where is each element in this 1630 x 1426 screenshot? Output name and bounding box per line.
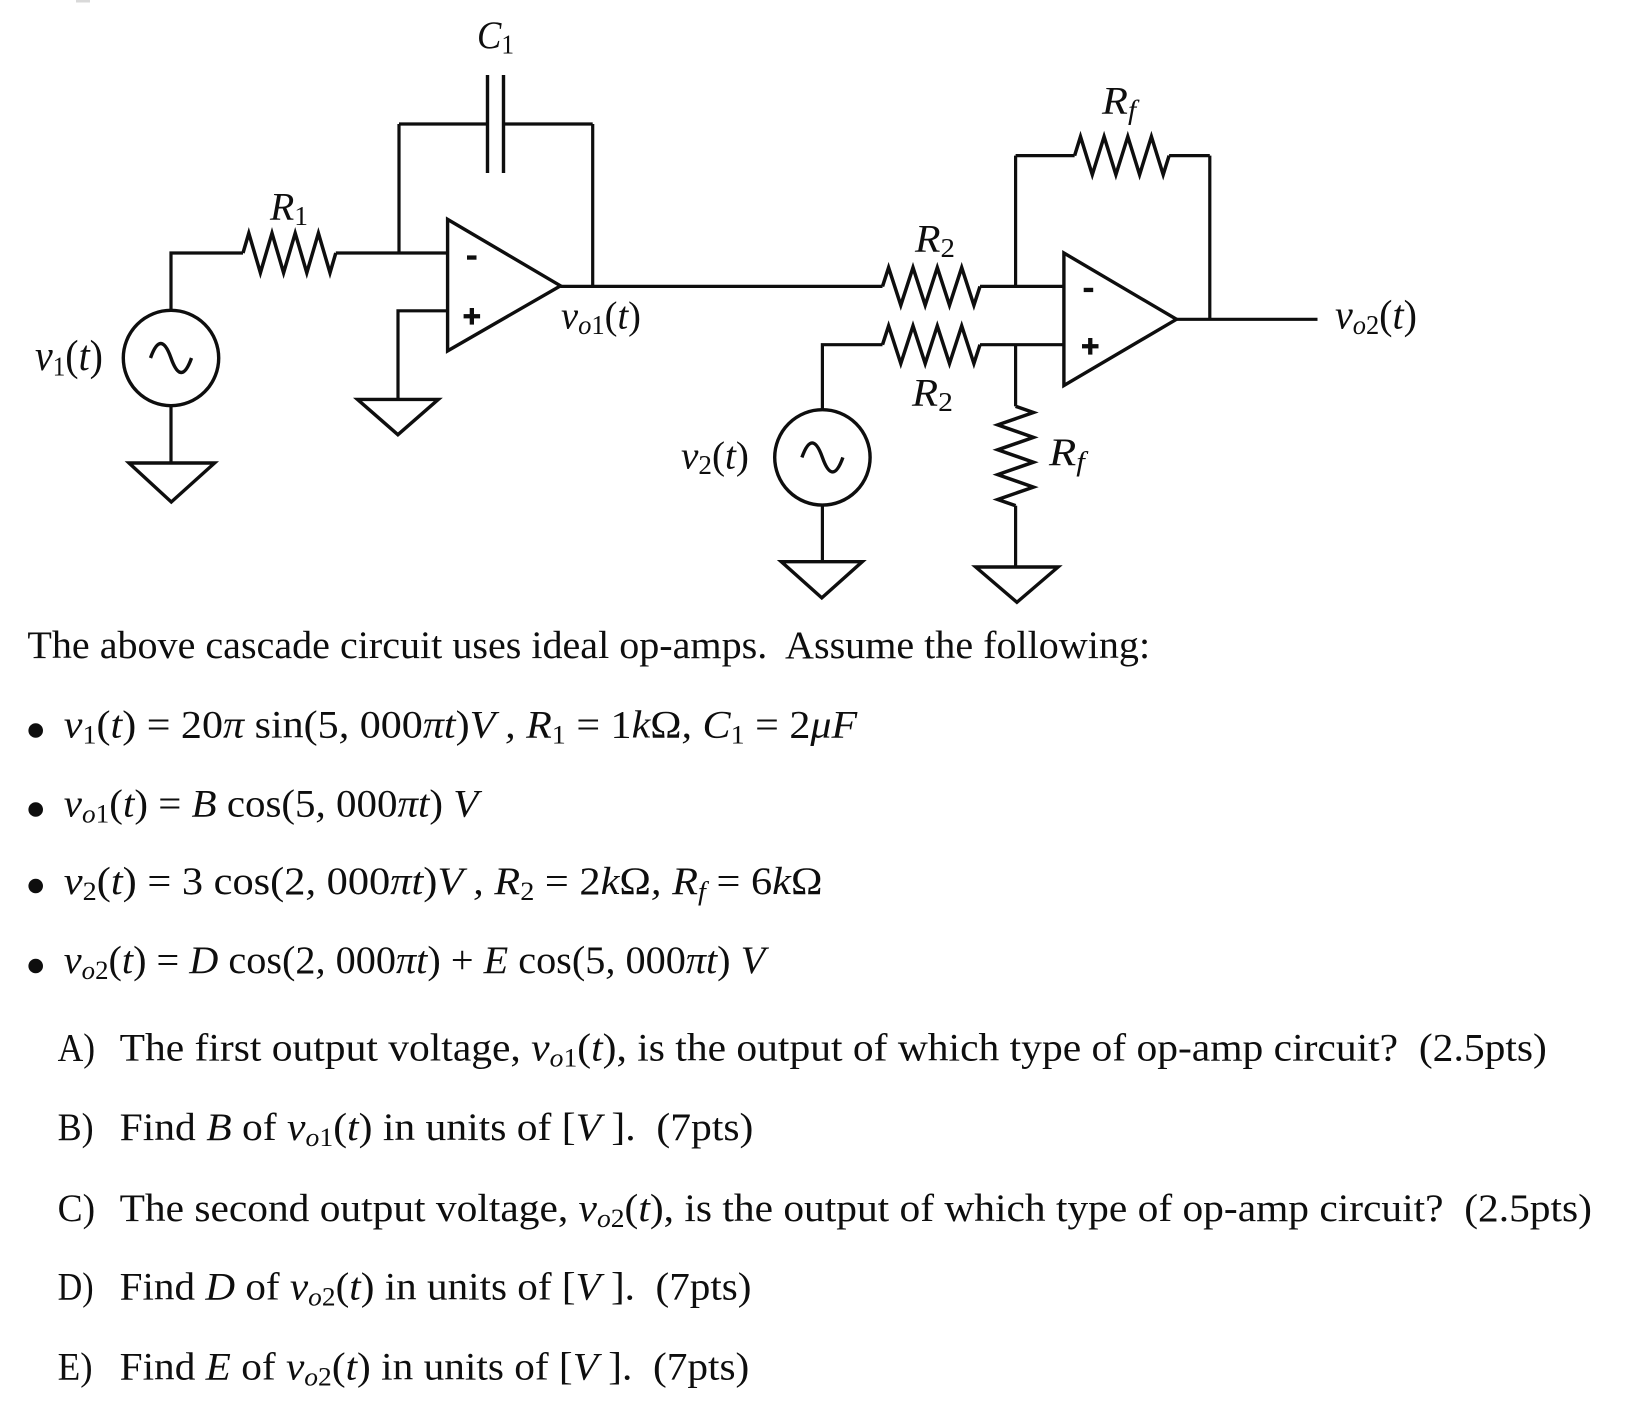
wire: Rf to ground	[1014, 506, 1017, 567]
resistor Rf (to ground)	[998, 406, 1034, 505]
wire: U1 non-inverting input	[398, 311, 448, 400]
svg-text:vo2(t): vo2(t)	[1335, 292, 1417, 340]
wire: R1 to U1 inverting input	[336, 251, 448, 254]
U1 minus pin mark	[467, 255, 477, 259]
wire: R2 bottom to U2 + input	[980, 343, 1064, 346]
svg-text:v2(t) = 3 cos(2, 000πt)V , R2: v2(t) = 3 cos(2, 000πt)V , R2 = 2kΩ, Rf …	[64, 860, 823, 906]
wire: V1 top to R1	[171, 253, 243, 310]
source V2	[775, 410, 870, 505]
wire: + node down to Rf	[1014, 345, 1017, 407]
svg-text:Find E of vo2(t) in units of [: Find E of vo2(t) in units of [V ]. (7pts…	[120, 1344, 750, 1391]
wire: U2 output	[1177, 318, 1318, 321]
wire: R2 bottom left to V2	[822, 345, 882, 410]
resistor R2 (top)	[883, 268, 981, 306]
svg-text:v1(t) = 20π sin(5, 000πt)V , R: v1(t) = 20π sin(5, 000πt)V , R1 = 1kΩ, C…	[64, 703, 859, 749]
U1 plus pin mark	[464, 308, 481, 325]
svg-text:B): B)	[58, 1107, 94, 1150]
svg-text:E): E)	[58, 1345, 93, 1388]
svg-text:Rf: Rf	[1048, 432, 1089, 478]
resistor Rf (feedback)	[1075, 137, 1170, 175]
svg-text:vo1(t) = B cos(5, 000πt) V: vo1(t) = B cos(5, 000πt) V	[64, 781, 483, 828]
svg-text:R2: R2	[911, 371, 953, 417]
svg-text:v1(t): v1(t)	[35, 332, 103, 382]
svg-text:R2: R2	[914, 217, 955, 264]
op-amp U2	[1064, 253, 1177, 386]
ground (V2)	[781, 562, 862, 598]
svg-text:C): C)	[58, 1187, 95, 1230]
svg-text:v2(t): v2(t)	[681, 435, 749, 480]
svg-text:D): D)	[58, 1264, 94, 1308]
wire: feedback2 top right	[1169, 154, 1210, 157]
node B / feedback2 tap	[1014, 156, 1017, 287]
page edge artifact	[76, 0, 90, 3]
svg-text:The first output voltage, vo1(: The first output voltage, vo1(t), is the…	[120, 1025, 1547, 1072]
capacitor C1	[488, 75, 504, 173]
wire: R2 to U2 inverting input	[980, 285, 1064, 288]
U2 minus pin mark	[1084, 288, 1094, 292]
svg-text:vo1(t): vo1(t)	[561, 294, 641, 340]
ground (U1 + input)	[358, 399, 439, 434]
wire: V2 bottom	[821, 505, 824, 562]
svg-text:Find D of vo2(t) in units of [: Find D of vo2(t) in units of [V ]. (7pts…	[120, 1264, 752, 1311]
ground (Rf)	[976, 567, 1058, 602]
node A / feedback tap left	[397, 124, 400, 253]
svg-text:Find B of vo1(t) in units of [: Find B of vo1(t) in units of [V ]. (7pts…	[120, 1105, 754, 1152]
wire: U1 output to R2	[561, 285, 883, 288]
wire: feedback top right	[504, 122, 593, 125]
resistor R1	[243, 233, 336, 273]
U2 plus pin mark	[1082, 338, 1099, 355]
svg-text:R1: R1	[269, 185, 308, 231]
svg-text:The above cascade circuit uses: The above cascade circuit uses ideal op-…	[27, 623, 1150, 666]
svg-text:C1: C1	[477, 14, 514, 60]
svg-text:Rf: Rf	[1101, 79, 1140, 126]
wire: feedback2 top left	[1016, 154, 1075, 157]
source V1	[123, 310, 218, 405]
wire: feedback right leg down to output	[591, 124, 594, 286]
wire: V1 bottom	[169, 406, 172, 463]
wire: feedback top left	[399, 122, 488, 125]
wire: feedback2 right leg	[1208, 156, 1211, 320]
ground (V1)	[129, 463, 215, 502]
svg-text:vo2(t) = D cos(2, 000πt) + E c: vo2(t) = D cos(2, 000πt) + E cos(5, 000π…	[64, 939, 769, 985]
svg-text:A): A)	[58, 1027, 95, 1070]
svg-text:The second output voltage, vo2: The second output voltage, vo2(t), is th…	[120, 1186, 1592, 1233]
resistor R2 (bottom)	[883, 326, 981, 364]
op-amp U1	[448, 219, 561, 351]
